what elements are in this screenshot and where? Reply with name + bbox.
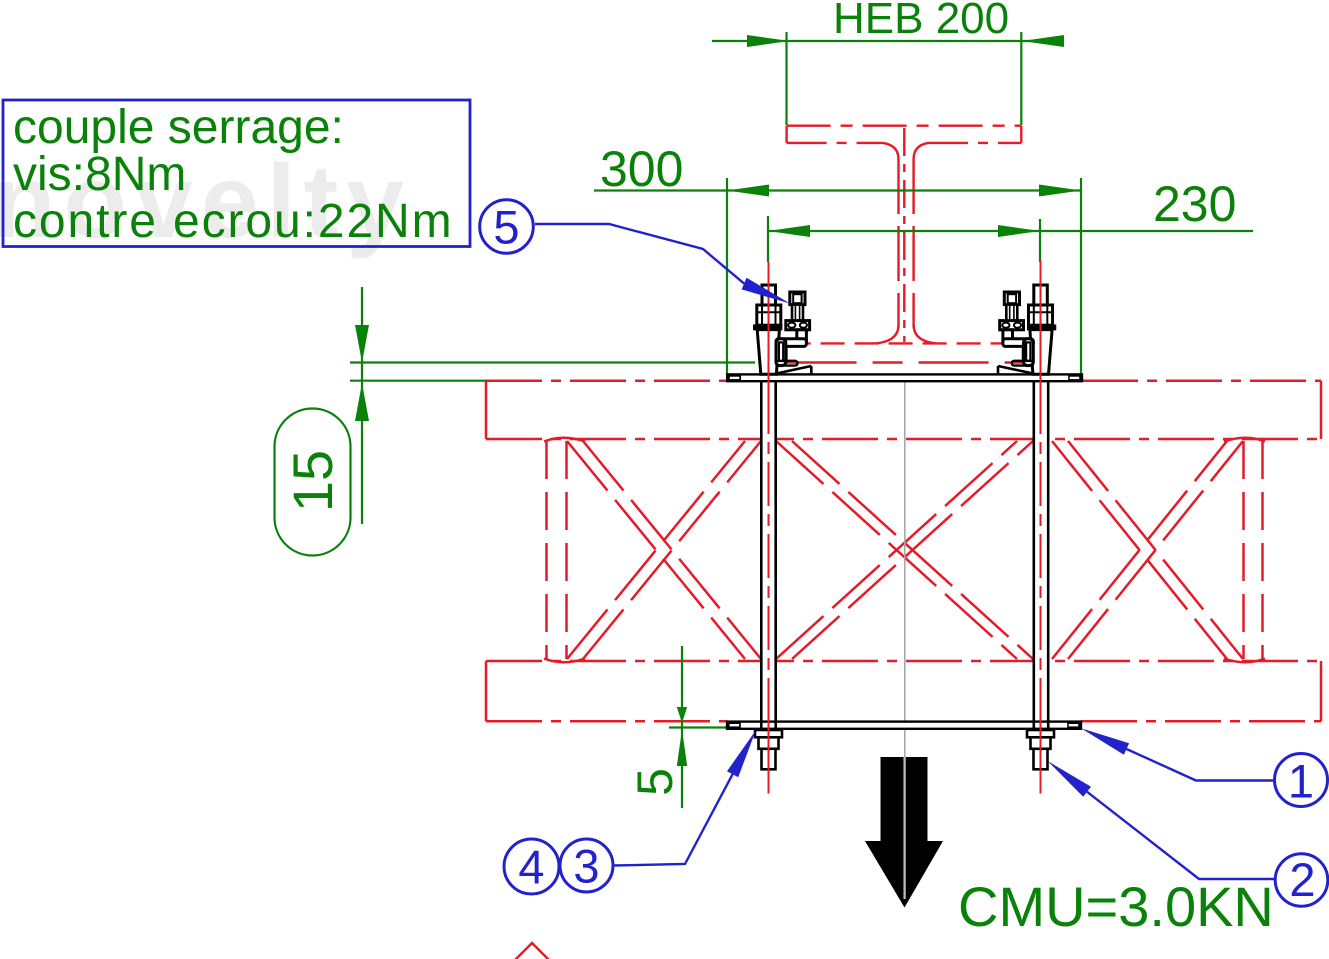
svg-text:230: 230 — [1153, 176, 1236, 232]
svg-text:3: 3 — [573, 840, 599, 893]
svg-text:HEB 200: HEB 200 — [833, 0, 1009, 43]
svg-text:2: 2 — [1289, 853, 1315, 906]
svg-text:4: 4 — [518, 841, 544, 894]
svg-text:contre ecrou:22Nm: contre ecrou:22Nm — [13, 195, 454, 248]
svg-text:1: 1 — [1288, 755, 1314, 808]
svg-text:5: 5 — [627, 768, 683, 796]
svg-text:300: 300 — [600, 141, 683, 197]
svg-text:vis:8Nm: vis:8Nm — [13, 148, 186, 201]
svg-text:15: 15 — [281, 450, 344, 512]
svg-text:5: 5 — [493, 201, 519, 254]
svg-text:CMU=3.0KN: CMU=3.0KN — [958, 875, 1274, 938]
svg-text:couple serrage:: couple serrage: — [13, 101, 344, 154]
